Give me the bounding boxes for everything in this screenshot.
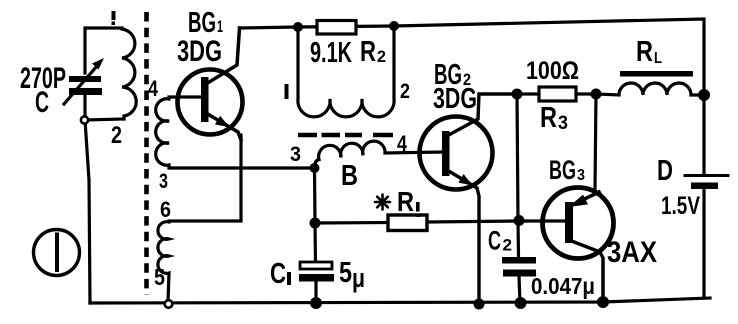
circled figure number 1 — [34, 230, 80, 276]
svg-text:9.1K: 9.1K — [310, 37, 352, 69]
BG3 collector line — [569, 240, 603, 302]
node RL right — [698, 89, 710, 101]
BG3 base wire — [519, 219, 565, 222]
wire terminal 4 to BG1 base — [169, 95, 201, 98]
terminal mark 1 (exclamation-like) above tank coil — [112, 11, 116, 25]
node B terminal 3 — [310, 163, 320, 173]
svg-text:3: 3 — [159, 170, 168, 193]
svg-text:100Ω: 100Ω — [526, 57, 579, 85]
wire top of LC tank — [85, 28, 122, 73]
asterisk mark before R1 — [375, 195, 390, 210]
wire R3 right node down to BG3 emitter — [595, 94, 596, 190]
transformer T1 secondary lower winding 6-5 — [158, 222, 169, 302]
label 1 (B primary) — [285, 84, 289, 99]
variable capacitor C plates — [69, 76, 102, 95]
wire terminal 3 to node B3 — [169, 166, 315, 169]
capacitor C1 — [315, 223, 316, 303]
svg-text:2: 2 — [400, 80, 410, 103]
junction node C2 on bottom rail — [515, 297, 527, 309]
wire bottom of LC tank — [85, 119, 124, 120]
BG1 collector line to top rail — [206, 28, 240, 84]
svg-text:1.5V: 1.5V — [661, 192, 700, 220]
svg-text:R: R — [397, 186, 414, 217]
transformer B secondary winding 3-4 — [314, 141, 442, 168]
svg-text:D: D — [657, 155, 673, 187]
transformer B primary winding 1-2 — [298, 26, 394, 117]
bottom rail — [90, 298, 710, 303]
svg-text:3AX: 3AX — [607, 236, 657, 269]
node R1 left / C1 — [310, 218, 321, 229]
svg-text:4: 4 — [148, 76, 159, 101]
svg-text:5: 5 — [154, 264, 165, 290]
node R3 right — [591, 89, 602, 100]
node R3 left — [512, 89, 523, 100]
transistor BG3 — [543, 188, 614, 259]
wire terminal 6 to BG1 emitter — [169, 135, 241, 221]
junction node T1-5 on bottom rail — [165, 300, 173, 308]
svg-text:3DG: 3DG — [177, 35, 222, 68]
svg-text:3: 3 — [577, 167, 585, 184]
transistor BG2 — [420, 117, 493, 190]
svg-text:R: R — [360, 36, 376, 68]
svg-text:5: 5 — [339, 257, 352, 289]
wire left vertical below variable capacitor to bottom rail — [85, 94, 90, 303]
inductor RL — [596, 83, 704, 95]
junction node BG3 collector on bottom rail — [597, 296, 609, 308]
wire node B3 down to R1/C1 node — [313, 168, 317, 223]
svg-text:C: C — [270, 258, 286, 290]
svg-text:4: 4 — [397, 131, 408, 156]
transformer T1 core (dashed) — [144, 12, 149, 295]
svg-text:2: 2 — [111, 122, 122, 149]
svg-text:R: R — [636, 36, 653, 68]
transformer B core (dashed) — [298, 133, 393, 138]
svg-text:μ: μ — [352, 263, 365, 293]
BG2 emitter line — [447, 170, 479, 306]
svg-text:0.047μ: 0.047μ — [531, 273, 595, 299]
svg-text:2: 2 — [377, 47, 386, 66]
svg-text:2: 2 — [503, 236, 513, 255]
junction node tank bottom — [81, 116, 88, 123]
node top-left of R2 — [293, 22, 303, 32]
BG3 emitter line (arrow toward base, PNP) — [570, 192, 599, 206]
resistor R2 — [317, 21, 356, 35]
BG2 collector line — [447, 94, 517, 136]
svg-text:3: 3 — [290, 143, 301, 166]
svg-text:3DG: 3DG — [433, 83, 477, 115]
junction node BG2 emitter on bottom rail — [474, 299, 485, 310]
transformer T1 primary winding (tank coil) — [122, 29, 136, 119]
transistor BG1 — [178, 70, 243, 135]
transformer T1 secondary upper winding 4-3 — [156, 99, 172, 168]
svg-text:L: L — [654, 50, 662, 67]
resistor R1 — [315, 221, 519, 223]
BG1 emitter line — [206, 113, 241, 140]
svg-text:C: C — [35, 86, 49, 119]
svg-text:B: B — [341, 160, 358, 192]
capacitor C2 — [518, 220, 520, 303]
inductor RL core bar — [620, 71, 693, 77]
node BG3 base / C2 / R1 — [514, 215, 525, 226]
svg-text:BG: BG — [549, 155, 576, 185]
svg-text:3: 3 — [558, 113, 568, 134]
resistor R3 — [517, 92, 596, 95]
svg-text:1: 1 — [217, 17, 223, 36]
node top-right of R2 — [389, 21, 399, 31]
top rail — [240, 19, 705, 95]
junction node C1 on bottom rail — [310, 297, 322, 309]
battery D — [702, 95, 705, 298]
svg-text:R: R — [540, 102, 557, 134]
svg-text:C: C — [488, 226, 501, 256]
variable capacitor arrow — [64, 66, 97, 104]
wire R3 left node down to BG3 base node — [517, 94, 518, 220]
svg-text:6: 6 — [160, 197, 171, 222]
